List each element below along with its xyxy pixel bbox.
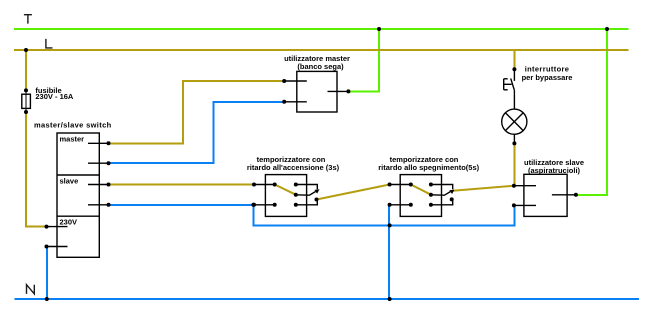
svg-text:per bypassare: per bypassare [522, 73, 573, 82]
svg-text:master: master [60, 135, 85, 144]
svg-text:master/slave switch: master/slave switch [34, 121, 112, 130]
svg-text:(aspiratrucioli): (aspiratrucioli) [528, 166, 581, 175]
svg-text:ritardo allo spegnimento(5s): ritardo allo spegnimento(5s) [378, 163, 479, 172]
svg-text:slave: slave [60, 177, 79, 186]
svg-text:(banco sega): (banco sega) [297, 62, 344, 71]
svg-text:ritardo all'accensione (3s): ritardo all'accensione (3s) [247, 163, 340, 172]
svg-text:230V: 230V [60, 218, 78, 227]
svg-text:230V - 16A: 230V - 16A [35, 92, 74, 101]
